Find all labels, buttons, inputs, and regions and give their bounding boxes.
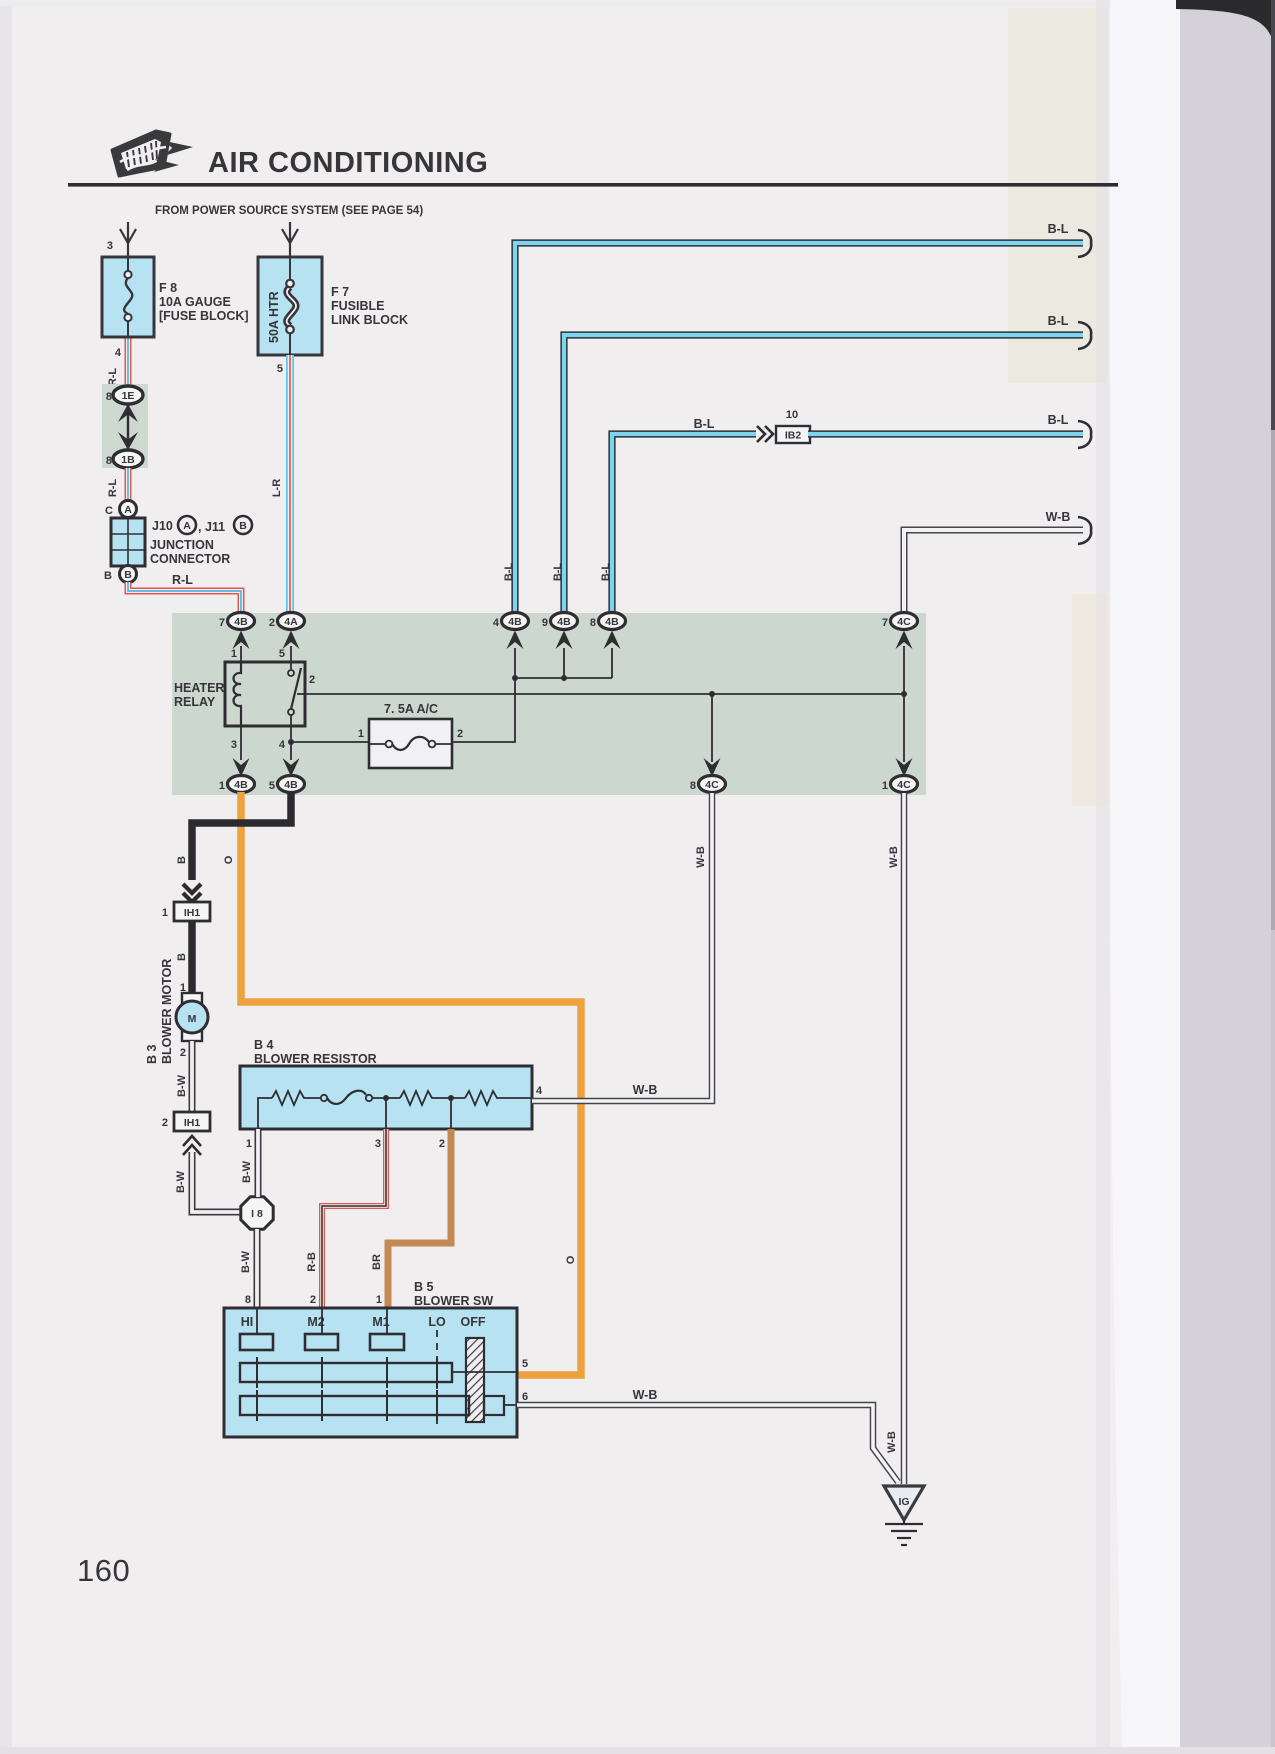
bus to 4B connectors xyxy=(515,677,612,679)
down arrows above bottom connectors xyxy=(233,758,913,777)
svg-text:5: 5 xyxy=(277,363,283,375)
ground symbol xyxy=(885,1520,923,1545)
svg-text:B 3: B 3 xyxy=(145,1045,159,1065)
svg-text:8: 8 xyxy=(590,617,596,629)
bar2 ticks xyxy=(257,1390,437,1421)
relay switch xyxy=(288,670,294,676)
blower motor B3 xyxy=(176,982,208,1059)
contact pads xyxy=(240,1334,404,1350)
black book edge top right xyxy=(1176,0,1275,50)
svg-text:1: 1 xyxy=(219,780,225,792)
svg-text:4: 4 xyxy=(493,617,500,629)
svg-text:50A HTR: 50A HTR xyxy=(267,291,281,343)
connector 5(4B) xyxy=(278,776,305,793)
wire L-R (F7 to 4A) xyxy=(286,355,294,612)
svg-text:9: 9 xyxy=(542,617,548,629)
svg-text:W-B: W-B xyxy=(1046,510,1071,524)
svg-text:W-B: W-B xyxy=(633,1083,658,1097)
wire B-W (IH1 to I8) xyxy=(192,1152,240,1212)
relay pin2 long bus wire xyxy=(305,693,904,695)
connector break hook 2 xyxy=(1078,322,1091,349)
relay pin4 wire down xyxy=(290,715,292,760)
svg-text:10A GAUGE: 10A GAUGE xyxy=(159,295,231,309)
svg-text:8: 8 xyxy=(106,391,112,403)
svg-text:HEATER: HEATER xyxy=(174,681,224,695)
svg-text:1: 1 xyxy=(882,780,888,792)
svg-text:8: 8 xyxy=(245,1294,251,1306)
wire W-B (1(4C) down to ground) xyxy=(901,793,908,1484)
tape piece mid right xyxy=(1072,594,1172,806)
junction connector terminal B xyxy=(120,566,137,583)
fuse F8 element xyxy=(124,257,132,337)
svg-text:I 8: I 8 xyxy=(251,1208,263,1220)
bar1 to OFF link / pin5 xyxy=(452,1371,517,1373)
green band behind 1E/1B xyxy=(102,384,148,468)
connector break hook 1 xyxy=(1078,230,1091,257)
connector 1(4B) xyxy=(228,776,255,793)
svg-text:O: O xyxy=(565,1255,577,1264)
junction dot at 904 xyxy=(901,691,907,697)
svg-text:4B: 4B xyxy=(234,779,248,791)
fusible link element xyxy=(286,257,296,355)
svg-text:1: 1 xyxy=(376,1294,382,1306)
connector 7(4C) xyxy=(891,613,918,630)
relay pin3 wire down xyxy=(240,726,242,760)
fuse F8 box xyxy=(102,257,154,337)
svg-text:M: M xyxy=(188,1013,197,1025)
svg-text:BLOWER MOTOR: BLOWER MOTOR xyxy=(160,959,174,1064)
svg-text:HI: HI xyxy=(241,1315,254,1329)
connector 1B xyxy=(106,450,143,468)
svg-text:2: 2 xyxy=(457,728,463,740)
svg-text:BLOWER RESISTOR: BLOWER RESISTOR xyxy=(254,1052,377,1066)
svg-text:2: 2 xyxy=(162,1117,168,1129)
svg-text:B-L: B-L xyxy=(503,563,515,582)
wire BR (resistor pin2 to switch pin1) xyxy=(388,1129,451,1308)
svg-text:B: B xyxy=(124,569,132,581)
svg-text:BLOWER SW: BLOWER SW xyxy=(414,1294,493,1308)
junction connector J10/J11 box xyxy=(111,518,145,566)
svg-text:8: 8 xyxy=(106,455,112,467)
svg-text:B 4: B 4 xyxy=(254,1038,274,1052)
feed arrow into F7 xyxy=(282,222,298,257)
svg-text:4A: 4A xyxy=(284,616,298,628)
svg-text:RELAY: RELAY xyxy=(174,695,216,709)
svg-text:J10: J10 xyxy=(152,519,173,533)
svg-text:R-L: R-L xyxy=(107,368,119,387)
connector 4(4B) xyxy=(502,613,529,630)
svg-text:5: 5 xyxy=(269,780,275,792)
svg-text:O: O xyxy=(223,855,235,864)
svg-text:LO: LO xyxy=(428,1315,446,1329)
svg-text:R-L: R-L xyxy=(172,573,193,587)
svg-text:4B: 4B xyxy=(234,616,248,628)
wire B-L third (from 4B pin8 to IB2) xyxy=(612,434,756,616)
wire pin5 into relay xyxy=(290,646,292,669)
relay coil xyxy=(234,662,242,726)
svg-text:2: 2 xyxy=(439,1138,445,1150)
svg-text:B-W: B-W xyxy=(240,1250,252,1273)
wire pin1 into relay xyxy=(240,646,242,662)
svg-text:2: 2 xyxy=(310,1294,316,1306)
blower switch B5 box xyxy=(224,1308,517,1437)
junction dots in resistor xyxy=(383,1095,389,1101)
ground IG triangle xyxy=(884,1486,924,1520)
svg-text:F 7: F 7 xyxy=(331,285,349,299)
connector 8(4B) xyxy=(599,613,626,630)
svg-text:1B: 1B xyxy=(121,454,135,466)
wire R-L (1B to A) xyxy=(125,468,132,501)
wire B-W (I8 to blower switch pin8) xyxy=(254,1229,261,1308)
svg-text:3: 3 xyxy=(107,240,113,252)
svg-text:B-W: B-W xyxy=(241,1160,253,1183)
svg-text:FROM POWER SOURCE SYSTEM (SEE: FROM POWER SOURCE SYSTEM (SEE PAGE 54) xyxy=(155,205,423,217)
svg-text:F 8: F 8 xyxy=(159,281,177,295)
slider bar 2 xyxy=(240,1396,469,1415)
svg-text:B-L: B-L xyxy=(600,563,612,582)
svg-text:4: 4 xyxy=(279,739,286,751)
connector 9(4B) xyxy=(551,613,578,630)
connector break hook 4 xyxy=(1078,517,1091,544)
svg-text:8: 8 xyxy=(690,780,696,792)
svg-text:R-B: R-B xyxy=(306,1252,318,1272)
green highlight band xyxy=(172,613,926,795)
wire fuse pin2 to bus xyxy=(452,678,515,742)
svg-text:IH1: IH1 xyxy=(184,907,201,919)
wire R-L (B to connector 4B) xyxy=(128,582,241,612)
junction connector terminal A xyxy=(120,501,137,518)
svg-text:4: 4 xyxy=(115,347,122,359)
svg-text:W-B: W-B xyxy=(888,846,900,868)
svg-text:5: 5 xyxy=(279,648,285,660)
svg-text:BR: BR xyxy=(371,1254,383,1270)
svg-text:A: A xyxy=(124,504,132,516)
svg-text:B: B xyxy=(104,570,112,582)
svg-text:7. 5A A/C: 7. 5A A/C xyxy=(384,702,438,716)
svg-text:B-L: B-L xyxy=(1048,222,1069,236)
wire B-L top (from 4B pin4 to right edge) xyxy=(515,243,1083,616)
scan paper shading xyxy=(0,0,12,1754)
svg-text:W-B: W-B xyxy=(886,1431,898,1453)
svg-text:2: 2 xyxy=(309,674,315,686)
svg-text:FUSIBLE: FUSIBLE xyxy=(331,299,384,313)
wire down to 1(4C) xyxy=(903,694,905,762)
wire B-L (IB2 to right edge) xyxy=(808,430,1083,437)
svg-text:6: 6 xyxy=(522,1391,528,1403)
svg-text:[FUSE BLOCK]: [FUSE BLOCK] xyxy=(159,309,249,323)
svg-text:4B: 4B xyxy=(284,779,298,791)
svg-text:160: 160 xyxy=(77,1553,130,1588)
wire pin4 to fuse xyxy=(291,741,369,743)
svg-text:B-W: B-W xyxy=(175,1170,187,1193)
header rule xyxy=(68,183,1118,187)
wire B black (5(4B) to IH1) xyxy=(192,792,291,880)
wire B-L second (from 4B pin9 to right edge) xyxy=(564,335,1083,616)
connector 2(IH1) xyxy=(174,1112,210,1131)
svg-text:B-W: B-W xyxy=(176,1074,188,1097)
svg-text:4C: 4C xyxy=(897,616,911,628)
svg-text:3: 3 xyxy=(375,1138,381,1150)
svg-text:1: 1 xyxy=(246,1138,252,1150)
svg-text:AIR CONDITIONING: AIR CONDITIONING xyxy=(208,147,488,179)
page right edge fold (white) xyxy=(1108,0,1180,1754)
LO dashed line xyxy=(436,1330,438,1424)
svg-text:4B: 4B xyxy=(508,616,522,628)
OFF hatched bar xyxy=(466,1338,484,1422)
connector break hook 3 xyxy=(1078,421,1091,448)
svg-text:B-L: B-L xyxy=(1048,413,1069,427)
wire B (IH1 to motor) xyxy=(188,921,196,995)
header vent icon xyxy=(112,131,193,176)
svg-text:B-L: B-L xyxy=(1048,314,1069,328)
svg-text:1E: 1E xyxy=(122,390,135,402)
wire O orange (5... from 1(4B) to blower switch pin5) xyxy=(241,792,581,1375)
svg-text:7: 7 xyxy=(219,617,225,629)
blower resistor B4 box xyxy=(240,1066,532,1129)
svg-text:C: C xyxy=(105,505,113,517)
svg-text:4C: 4C xyxy=(897,779,911,791)
inline connector arrows >> xyxy=(757,426,773,442)
connector 7(4B) xyxy=(228,613,255,630)
svg-text:L-R: L-R xyxy=(271,479,283,497)
wire R-B (resistor pin3 to switch pin2) xyxy=(322,1129,386,1308)
svg-text:W-B: W-B xyxy=(695,846,707,868)
svg-text:IG: IG xyxy=(898,1496,909,1508)
feed arrow into F8 xyxy=(120,222,136,257)
up arrows under top connectors xyxy=(233,631,913,650)
chevron arrows up below IH1 xyxy=(183,1136,201,1155)
junction dots on 4B bus xyxy=(512,675,518,681)
wire 7(4C) down to bus xyxy=(903,646,905,694)
fuse 7.5A A/C box xyxy=(369,719,452,768)
svg-text:JUNCTION: JUNCTION xyxy=(150,538,214,552)
svg-text:B: B xyxy=(239,520,247,532)
wire W-B (from 4C pin7 to right edge) xyxy=(904,530,1083,616)
svg-text:IB2: IB2 xyxy=(785,430,802,442)
junction dot pin4 xyxy=(288,739,294,745)
svg-text:OFF: OFF xyxy=(461,1315,486,1329)
svg-text:A: A xyxy=(183,520,191,532)
wire W-B (resistor pin4 up to 8(4C)) xyxy=(532,793,712,1101)
svg-text:W-B: W-B xyxy=(633,1388,658,1402)
connector 2(4A) xyxy=(278,613,305,630)
svg-text:B-L: B-L xyxy=(552,563,564,582)
svg-text:5: 5 xyxy=(522,1358,528,1370)
svg-text:10: 10 xyxy=(786,409,798,421)
tape piece top right xyxy=(1008,8,1114,383)
connector 8(4C) xyxy=(699,776,726,793)
svg-text:1: 1 xyxy=(358,728,364,740)
contact stubs xyxy=(257,1308,387,1334)
heater relay box xyxy=(225,662,305,726)
svg-text:CONNECTOR: CONNECTOR xyxy=(150,552,230,566)
svg-text:B 5: B 5 xyxy=(414,1280,434,1294)
connector 1(IH1) xyxy=(174,902,210,921)
wire R-L (F8 to 1E) xyxy=(125,337,132,388)
svg-text:IH1: IH1 xyxy=(184,1117,201,1129)
chevron arrows on B wire xyxy=(183,884,201,902)
wire W-B (switch pin6 to ground) xyxy=(517,1405,898,1482)
junction dot at 712 xyxy=(709,691,715,697)
svg-text:4B: 4B xyxy=(557,616,571,628)
wire B-W (motor to 2 IH1) xyxy=(189,1041,196,1112)
connector 1(4C) xyxy=(891,776,918,793)
connector I8 octagon xyxy=(241,1197,273,1229)
svg-text:, J11: , J11 xyxy=(198,520,225,534)
soft shadow along fold xyxy=(1096,0,1110,1754)
svg-text:LINK BLOCK: LINK BLOCK xyxy=(331,313,408,327)
svg-text:1: 1 xyxy=(231,648,237,660)
connector IB2 xyxy=(776,426,810,443)
scanner background strip right xyxy=(1180,0,1275,1754)
svg-text:4C: 4C xyxy=(705,779,719,791)
bar1 ticks xyxy=(257,1357,437,1388)
svg-text:7: 7 xyxy=(882,617,888,629)
slider bar 1 xyxy=(240,1363,452,1382)
svg-text:B-L: B-L xyxy=(694,417,715,431)
svg-text:B: B xyxy=(176,953,188,961)
connector pair arrows 1E-1B xyxy=(118,404,138,450)
svg-text:2: 2 xyxy=(269,617,275,629)
svg-text:1: 1 xyxy=(162,907,168,919)
svg-text:4: 4 xyxy=(536,1085,543,1097)
wire down to 8(4C) xyxy=(711,694,713,762)
connector 1E xyxy=(106,386,143,404)
svg-text:2: 2 xyxy=(180,1047,186,1059)
wire B-W (resistor pin1 to I8) xyxy=(255,1129,262,1197)
fuse 7.5A element xyxy=(369,737,452,750)
svg-text:4B: 4B xyxy=(605,616,619,628)
fusible link F7 box xyxy=(258,257,322,355)
svg-text:1: 1 xyxy=(180,982,186,994)
svg-text:R-L: R-L xyxy=(107,479,119,498)
svg-text:3: 3 xyxy=(231,739,237,751)
pin6 pad right of hatch xyxy=(484,1396,504,1415)
resistor element network xyxy=(258,1091,532,1129)
svg-text:B: B xyxy=(176,856,188,864)
